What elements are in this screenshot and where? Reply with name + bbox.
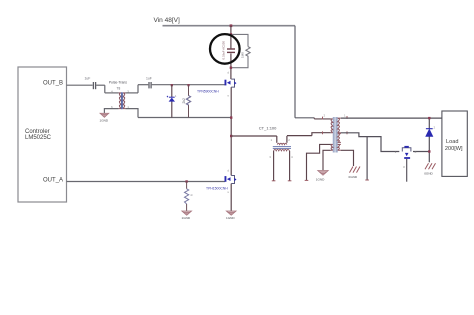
svg-text:OUT_B: OUT_B (43, 81, 63, 87)
svg-text:Pulse-Trans: Pulse-Trans (109, 81, 127, 85)
svg-text:LM5025C: LM5025C (25, 135, 52, 141)
svg-text:OUT_A: OUT_A (43, 177, 63, 183)
svg-text:1GND: 1GND (182, 216, 191, 220)
svg-text:1uF: 1uF (146, 77, 152, 81)
svg-text:Vin 48[V]: Vin 48[V] (154, 17, 180, 24)
svg-text:TPH1500CNH: TPH1500CNH (206, 186, 228, 190)
svg-text:CT_1:100: CT_1:100 (259, 125, 277, 130)
svg-text:TPN5900CNH: TPN5900CNH (197, 89, 219, 93)
svg-text:Load: Load (446, 139, 458, 145)
svg-text:0.33uF AC250: 0.33uF AC250 (222, 41, 226, 60)
svg-text:2k2: 2k2 (182, 98, 186, 103)
svg-text:200[W]: 200[W] (445, 146, 463, 152)
svg-text:Controler: Controler (25, 129, 50, 135)
svg-text:T8: T8 (117, 87, 121, 91)
svg-text:1M0: 1M0 (241, 52, 245, 58)
svg-text:1uF: 1uF (85, 77, 91, 81)
svg-text:1GND: 1GND (316, 178, 325, 182)
svg-text:1GND: 1GND (226, 216, 235, 220)
svg-text:1GND: 1GND (100, 118, 109, 122)
svg-text:0GND: 0GND (349, 175, 358, 179)
svg-text:0GND: 0GND (424, 172, 433, 176)
